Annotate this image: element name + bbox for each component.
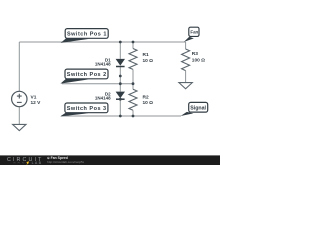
svg-text:Fan: Fan — [190, 30, 198, 35]
flag Switch Pos 2 — [60, 69, 108, 84]
flag Fan — [184, 27, 199, 42]
resistor R2 — [129, 89, 137, 110]
wire left vertical from top rail to V1 — [18, 42, 20, 91]
voltage source V1 — [12, 91, 27, 106]
junction dot diode rail / bottom rail — [119, 115, 122, 118]
resistor R3 — [182, 49, 190, 71]
wire R2 top — [132, 84, 134, 90]
wire R rail top — [132, 42, 134, 49]
junction dot top rail / diode rail — [119, 41, 122, 44]
svg-text:1N4148: 1N4148 — [95, 62, 111, 67]
diode D1 — [116, 59, 125, 67]
svg-text:Switch Pos 2: Switch Pos 2 — [67, 72, 106, 78]
junction dot R rail / mid rail — [132, 82, 135, 85]
flag Switch Pos 1 — [61, 29, 109, 43]
wire R3 bottom — [185, 71, 187, 83]
wire mid rail — [62, 83, 133, 85]
wire bottom rail — [61, 115, 181, 117]
wire V1 bottom to ground — [18, 107, 20, 125]
junction dot D2 cathode — [119, 98, 122, 101]
junction dot diode rail mid segment — [119, 75, 122, 78]
svg-text:http://circuitlab.com/cwqt5x: http://circuitlab.com/cwqt5x — [47, 160, 85, 164]
ground under R3 — [179, 83, 192, 89]
flag Switch Pos 3 — [60, 103, 108, 116]
wire R3 top — [185, 42, 187, 49]
wire R1 to mid rail — [132, 69, 134, 83]
svg-text:Signal: Signal — [190, 105, 206, 111]
svg-text:Switch Pos 3: Switch Pos 3 — [67, 106, 106, 112]
svg-text:10 Ω: 10 Ω — [143, 58, 154, 64]
svg-text:Switch Pos 1: Switch Pos 1 — [67, 31, 106, 37]
svg-text:10 Ω: 10 Ω — [143, 100, 154, 106]
svg-text:1N4148: 1N4148 — [95, 95, 111, 100]
wire diode rail — [119, 42, 121, 116]
svg-text:V1: V1 — [31, 95, 37, 101]
junction dot diode rail / mid rail — [119, 82, 122, 85]
resistor R1 — [129, 49, 137, 70]
junction dot R rail / bottom rail — [132, 115, 135, 118]
ground under V1 — [13, 124, 26, 130]
svg-text:R1: R1 — [143, 52, 149, 58]
svg-text:100 Ω: 100 Ω — [192, 58, 205, 64]
svg-text:R2: R2 — [143, 94, 149, 100]
svg-text:R3: R3 — [192, 51, 198, 57]
diode D2 — [116, 92, 125, 100]
svg-text:12 V: 12 V — [31, 100, 42, 106]
wire R2 bottom — [132, 110, 134, 116]
svg-text:∼∼∼⚡LAB: ∼∼∼⚡LAB — [13, 160, 42, 165]
flag Signal — [181, 102, 208, 116]
footer bar — [0, 155, 220, 165]
junction dot top rail / R rail — [132, 41, 135, 44]
wire top rail — [19, 41, 185, 43]
